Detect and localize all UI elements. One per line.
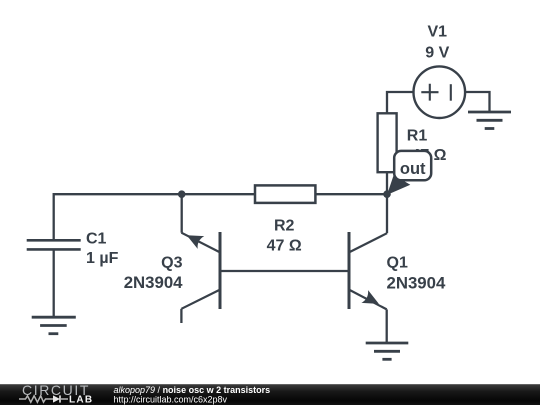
wire V1 right terminal to ground [465, 92, 490, 112]
svg-text:C1: C1 [86, 231, 107, 248]
transistor Q1 [349, 232, 446, 310]
wire C1 top lead up to node A level [54, 194, 182, 239]
ground for Q1 emitter [366, 343, 409, 359]
ground for C1 [32, 317, 76, 334]
svg-text:Q3: Q3 [161, 255, 182, 272]
transistor Q3 [124, 229, 220, 309]
wire node B up to R1 bottom and down to Q1 collector [386, 172, 388, 233]
resistor R1 [378, 113, 428, 172]
node flag "out" [387, 151, 431, 195]
svg-text:LAB: LAB [69, 395, 93, 405]
wire R1 top to V1 left terminal [387, 92, 414, 113]
svg-text:R1: R1 [407, 128, 428, 145]
node B junction dot [383, 190, 391, 198]
wire node A down to Q3 emitter lead [181, 194, 183, 233]
svg-text:47 Ω: 47 Ω [267, 238, 302, 255]
capacitor C1 [27, 231, 119, 267]
svg-text:2N3904: 2N3904 [387, 273, 446, 292]
svg-text:9 V: 9 V [425, 44, 449, 61]
svg-text:out: out [400, 160, 426, 178]
svg-text:2N3904: 2N3904 [124, 273, 183, 292]
wire base Q3 to base Q1 [220, 270, 349, 272]
svg-text:1 µF: 1 µF [86, 250, 119, 267]
resistor R2 [255, 185, 315, 254]
voltage source V1 [414, 24, 466, 118]
logo resistor zigzag and diode [19, 396, 53, 402]
svg-text:http://circuitlab.com/c6x2p8v: http://circuitlab.com/c6x2p8v [114, 394, 228, 404]
ground for V1 [468, 112, 511, 129]
wire Q3 emitter open stub [180, 309, 182, 323]
wire R2 right to node B [315, 193, 387, 195]
node A junction dot [178, 190, 186, 198]
wire Q1 emitter to ground [386, 309, 388, 343]
svg-text:alkopop79 / noise osc w 2 tran: alkopop79 / noise osc w 2 transistors [114, 385, 271, 395]
svg-text:R2: R2 [274, 218, 295, 235]
svg-text:Q1: Q1 [387, 255, 408, 272]
wire C1 bottom lead to ground [53, 251, 55, 318]
R1 value label 47 ohm (partly hidden by out flag) [411, 147, 446, 164]
svg-text:V1: V1 [428, 24, 448, 41]
wire node A to R2 left [182, 193, 255, 195]
footer bar [0, 382, 540, 405]
